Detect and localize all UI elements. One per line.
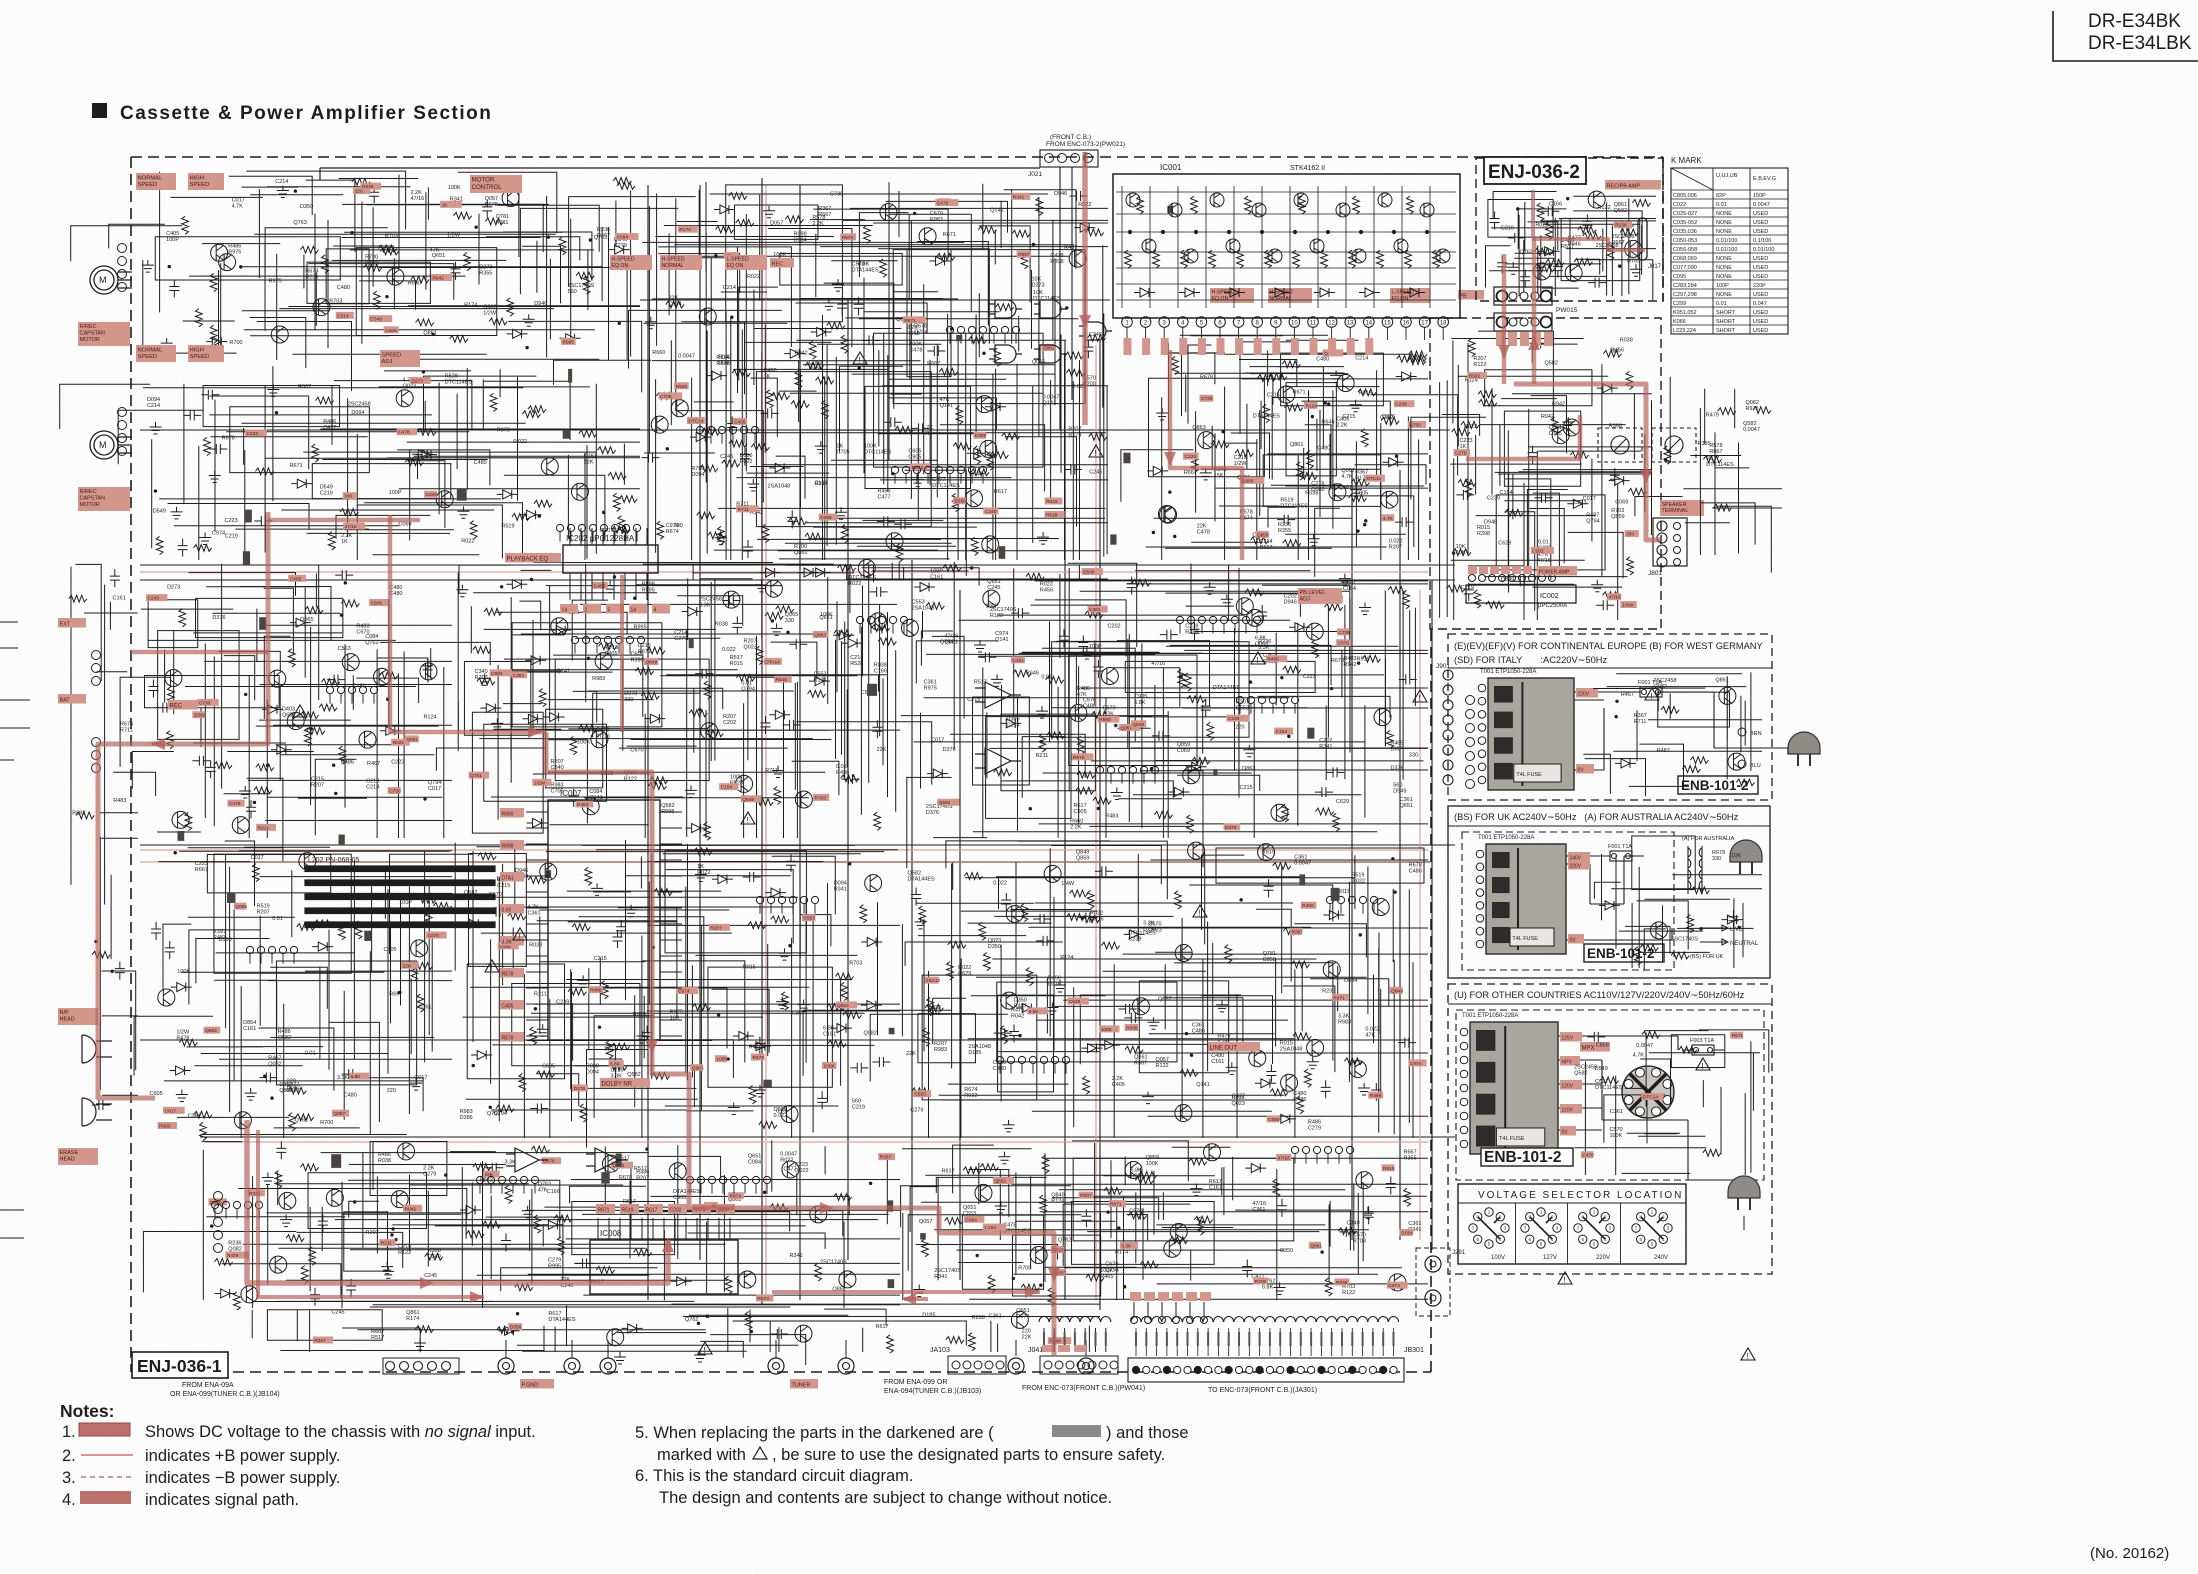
svg-text:IC001: IC001 [1160, 163, 1182, 172]
terminal at x846 [838, 1358, 854, 1374]
op-amp IC301b [975, 748, 1021, 774]
svg-text:D094: D094 [691, 472, 704, 478]
svg-text:C480: C480 [1317, 446, 1330, 452]
svg-text:R674: R674 [666, 529, 679, 535]
svg-text:C214: C214 [1355, 355, 1368, 361]
signal path pw015 down [1502, 254, 1507, 384]
IC002 muting block [1466, 585, 1576, 603]
svg-text:D350: D350 [954, 499, 966, 505]
svg-text:C480: C480 [1083, 704, 1096, 710]
svg-text:R578: R578 [502, 1035, 514, 1041]
svg-text:NORMAL: NORMAL [138, 347, 164, 353]
svg-text:C219: C219 [852, 1104, 865, 1110]
connector column x122 [118, 408, 127, 417]
svg-text:NONE: NONE [1716, 220, 1732, 226]
svg-text:NONE: NONE [1716, 256, 1732, 262]
svg-text:J801: J801 [1648, 570, 1662, 577]
svg-text:R015: R015 [633, 1012, 646, 1018]
svg-text:R341: R341 [834, 887, 847, 893]
IC001 pins 1-18 [1122, 317, 1133, 328]
svg-text:1K: 1K [763, 374, 770, 380]
svg-text:BAT: BAT [60, 697, 71, 703]
svg-text:C279: C279 [423, 1171, 436, 1177]
svg-text:R015: R015 [730, 661, 743, 667]
svg-text:C035-052: C035-052 [1673, 220, 1697, 226]
svg-text:3.3K: 3.3K [504, 1160, 516, 1166]
svg-text:Q859: Q859 [1076, 856, 1089, 862]
svg-text:100K: 100K [773, 252, 786, 258]
svg-text:, be sure to use the designate: , be sure to use the designated parts to… [772, 1446, 1165, 1464]
svg-text:R207: R207 [710, 925, 722, 931]
svg-text:R703: R703 [1627, 258, 1640, 264]
svg-text:100V: 100V [1491, 1255, 1505, 1261]
svg-text:R341: R341 [789, 1253, 802, 1259]
chip row R062 [1130, 1292, 1141, 1301]
connector pin row [326, 686, 333, 693]
svg-text:C478: C478 [398, 430, 410, 436]
svg-text:R022: R022 [393, 740, 405, 746]
dark component bodies [920, 1233, 926, 1239]
svg-text:C478: C478 [229, 801, 241, 807]
svg-text:220P: 220P [1753, 283, 1766, 289]
svg-text:R015: R015 [1383, 1166, 1395, 1172]
svg-text:C858: C858 [1596, 1043, 1609, 1049]
svg-text:Q863: Q863 [814, 632, 826, 638]
svg-text:2SC1740S: 2SC1740S [820, 1260, 847, 1266]
svg-text:R038: R038 [378, 1158, 391, 1164]
svg-text:DTC114ES: DTC114ES [1595, 1085, 1623, 1091]
svg-text:Q863: Q863 [1192, 425, 1205, 431]
svg-text:C077,090: C077,090 [1673, 265, 1697, 271]
svg-text:R674: R674 [1016, 1314, 1029, 1320]
svg-text:E,B,EV,G: E,B,EV,G [1753, 176, 1776, 182]
svg-text:C478: C478 [1197, 530, 1210, 536]
svg-text:150P: 150P [1753, 193, 1766, 199]
svg-text:330: 330 [344, 494, 352, 500]
svg-text:R983: R983 [934, 1047, 947, 1053]
svg-text:R975: R975 [924, 686, 937, 692]
svg-text:0.01: 0.01 [1716, 202, 1727, 208]
svg-text:CAPSTAN: CAPSTAN [80, 331, 106, 337]
svg-text:0.022: 0.022 [365, 260, 379, 266]
svg-text:0.01/100: 0.01/100 [1753, 247, 1774, 253]
svg-text:D273: D273 [1031, 283, 1044, 289]
svg-text:D350: D350 [988, 944, 1001, 950]
signal path bottom loop [247, 1120, 668, 1283]
wires and components (bottom band right) [901, 1141, 1428, 1300]
svg-text:1K: 1K [442, 202, 449, 208]
svg-text:3.3K: 3.3K [1121, 1243, 1132, 1249]
svg-text:R942: R942 [795, 351, 808, 357]
svg-text:C478: C478 [909, 348, 922, 354]
svg-text:0.022: 0.022 [722, 647, 736, 653]
svg-text:R898: R898 [1050, 259, 1063, 265]
svg-text:DTA144ES: DTA144ES [852, 267, 879, 273]
op-amp IC301a [975, 682, 1021, 708]
svg-text:(A) FOR AUSTRALIA: (A) FOR AUSTRALIA [1682, 836, 1735, 842]
svg-text:0.01: 0.01 [305, 1051, 316, 1057]
svg-text:R983: R983 [159, 1124, 171, 1130]
connector pin row [1096, 766, 1103, 773]
svg-text:R700: R700 [320, 1120, 333, 1126]
svg-text:R703: R703 [1353, 1239, 1366, 1245]
svg-text:R236: R236 [1322, 989, 1335, 995]
wires and components (panel 3 wiring detail) [1575, 1030, 1769, 1175]
svg-text:C905: C905 [1074, 809, 1087, 815]
svg-text:C219: C219 [1461, 585, 1474, 591]
svg-text:R479: R479 [176, 1036, 189, 1042]
model number corner mark [2053, 11, 2198, 61]
svg-text:R703: R703 [475, 675, 488, 681]
svg-text:Notes:: Notes: [60, 1401, 114, 1421]
wires and components (bottom logic band left) [143, 1140, 900, 1308]
svg-text:C154: C154 [984, 1225, 996, 1231]
ENJ-036-2 label [1484, 157, 1586, 184]
svg-text:USED: USED [1753, 292, 1768, 298]
svg-text:100P: 100P [389, 490, 402, 496]
svg-text:R519: R519 [1262, 849, 1275, 855]
signal path left input [131, 650, 268, 655]
svg-text:R674: R674 [730, 1194, 742, 1200]
svg-text:2SC2458: 2SC2458 [348, 402, 371, 408]
svg-text:IC007: IC007 [560, 789, 582, 798]
svg-text:R711: R711 [496, 220, 509, 226]
svg-text:12: 12 [1328, 321, 1335, 327]
svg-text:R042: R042 [1011, 1014, 1024, 1020]
svg-text:Q023: Q023 [743, 645, 756, 651]
svg-text:R671: R671 [1333, 995, 1345, 1001]
svg-text:DTA144ES: DTA144ES [908, 876, 935, 882]
connector pin row [1236, 696, 1243, 703]
svg-text:R456: R456 [1267, 657, 1279, 663]
svg-text:14: 14 [562, 607, 568, 613]
svg-text:R667: R667 [1018, 252, 1030, 258]
svg-text:C223: C223 [1185, 454, 1197, 460]
parts cluster (playback eq block) [456, 580, 896, 841]
svg-text:C215: C215 [497, 883, 510, 889]
svg-text:DTC114ES: DTC114ES [1280, 504, 1308, 510]
svg-text:0.022: 0.022 [993, 881, 1007, 887]
svg-text:R667: R667 [927, 361, 940, 367]
svg-text:2.2K: 2.2K [1336, 423, 1348, 429]
svg-text:IC008: IC008 [600, 1229, 622, 1238]
svg-text:R207: R207 [636, 1175, 649, 1181]
svg-text:R678: R678 [485, 202, 498, 208]
svg-text:R355: R355 [1697, 441, 1710, 447]
svg-text:R483: R483 [577, 802, 589, 808]
svg-text:Q762: Q762 [295, 1118, 308, 1124]
svg-text:R124: R124 [1060, 955, 1073, 961]
svg-text:11: 11 [1310, 321, 1317, 327]
signal path center snake [546, 732, 1054, 1356]
svg-text:C069: C069 [385, 328, 397, 334]
tape head 2 [82, 1098, 112, 1126]
svg-text:R341: R341 [1013, 194, 1025, 200]
svg-text:C215: C215 [1267, 392, 1280, 398]
svg-text:C361: C361 [989, 1314, 1002, 1320]
svg-text:LINE OUT: LINE OUT [1210, 1045, 1238, 1051]
svg-text:DTC11: DTC11 [1366, 476, 1381, 482]
chip PLAYBACK EQ [505, 553, 561, 563]
svg-text:C245: C245 [331, 1310, 344, 1316]
ground symbols row [414, 640, 1066, 1364]
IC002 pin chips [1468, 566, 1477, 574]
svg-text:R667: R667 [389, 991, 402, 997]
svg-text:R995: R995 [634, 624, 647, 630]
svg-text:0V: 0V [1562, 1129, 1569, 1135]
svg-text:C340: C340 [428, 1254, 441, 1260]
svg-text:R367: R367 [1292, 929, 1304, 935]
svg-text:BLU: BLU [1750, 763, 1761, 769]
svg-text:330: 330 [785, 618, 794, 624]
svg-text:R671: R671 [598, 1207, 610, 1213]
svg-text:C239: C239 [1395, 402, 1407, 408]
svg-text:R528: R528 [1046, 513, 1058, 519]
chip REC MUTE right [1605, 180, 1661, 190]
svg-text:C340: C340 [985, 509, 997, 515]
svg-text:R671: R671 [1732, 1033, 1744, 1039]
coil hump row [1131, 1317, 1399, 1323]
svg-text:R122: R122 [1473, 362, 1486, 368]
svg-text:47/16: 47/16 [1278, 1155, 1290, 1161]
svg-text:L-SPEED: L-SPEED [727, 257, 749, 263]
svg-text:CONTROL: CONTROL [472, 184, 503, 191]
svg-text:C705: C705 [1338, 630, 1350, 636]
svg-text:C166: C166 [547, 1189, 560, 1195]
svg-text:R042: R042 [1046, 499, 1058, 505]
parts cluster (ENJ-036-2 upper parts) [1488, 191, 1651, 288]
svg-text:MPX: MPX [1582, 1045, 1595, 1051]
dc jack J291 [1416, 1248, 1450, 1316]
svg-text:C974: C974 [1388, 1283, 1400, 1289]
svg-text:C219: C219 [225, 534, 238, 540]
ENJ-036-1 label [132, 1352, 228, 1378]
connector pin labels [1135, 1332, 1137, 1346]
svg-text:ADJ: ADJ [382, 359, 393, 365]
svg-text:6.8K: 6.8K [1262, 1284, 1274, 1290]
svg-text:2SA10: 2SA10 [926, 978, 941, 984]
svg-text:0.0047: 0.0047 [1636, 1043, 1653, 1049]
svg-text:C017: C017 [428, 786, 441, 792]
connector pin row [686, 1176, 693, 1183]
svg-text:R660: R660 [652, 350, 665, 356]
svg-text:15K: 15K [1214, 473, 1224, 479]
svg-text:C480: C480 [344, 1093, 357, 1099]
svg-text:USED: USED [1753, 328, 1768, 334]
svg-text:C245: C245 [424, 1273, 437, 1279]
svg-text:Q582: Q582 [939, 800, 951, 806]
connector J901 column [1443, 670, 1453, 680]
svg-text:R646: R646 [775, 677, 787, 683]
svg-text:T4L FUSE: T4L FUSE [1512, 936, 1538, 942]
svg-text:D376: D376 [1391, 766, 1404, 772]
svg-text:L223,224: L223,224 [1673, 328, 1696, 334]
svg-text:R703: R703 [849, 961, 862, 967]
svg-text:R341: R341 [934, 1274, 947, 1280]
transformer T001 (panel 2) [1476, 835, 1566, 954]
svg-text:C480: C480 [474, 460, 487, 466]
svg-text:R678: R678 [1200, 374, 1213, 380]
svg-text:R465: R465 [1100, 1274, 1113, 1280]
connector column x218 [214, 1192, 223, 1201]
svg-text:C219: C219 [320, 491, 333, 497]
svg-text:R456: R456 [1302, 903, 1314, 909]
ENJ-036-2 dashed box lower [1430, 318, 1661, 629]
svg-text:R975: R975 [269, 279, 282, 285]
svg-text:C245: C245 [927, 1011, 940, 1017]
svg-text:Q057: Q057 [333, 1111, 345, 1117]
svg-text:C161: C161 [113, 596, 126, 602]
svg-text:R038: R038 [1126, 1025, 1138, 1031]
svg-text:NONE: NONE [1716, 229, 1732, 235]
svg-text:R483: R483 [113, 798, 126, 804]
connector J041 [1040, 1356, 1118, 1374]
svg-text:F003 T1A: F003 T1A [1690, 1038, 1714, 1044]
svg-text:D549: D549 [718, 360, 731, 366]
svg-text:F001 T1A: F001 T1A [1608, 844, 1632, 850]
svg-text:Q849: Q849 [1391, 988, 1403, 994]
svg-text:125V: 125V [1562, 1035, 1574, 1041]
svg-text:Q057: Q057 [1120, 725, 1132, 731]
svg-text:C405: C405 [604, 651, 617, 657]
svg-text:R467: R467 [1621, 692, 1634, 698]
svg-text:PW015: PW015 [1556, 307, 1578, 314]
svg-text:USED: USED [1753, 319, 1768, 325]
trimmer RV602 [1652, 428, 1696, 462]
svg-text:100K: 100K [577, 739, 590, 745]
svg-text:R667: R667 [1134, 1060, 1147, 1066]
svg-text:C361: C361 [188, 1113, 201, 1119]
svg-text:T4L FUSE: T4L FUSE [1499, 1136, 1525, 1142]
svg-text:Q861: Q861 [794, 550, 807, 556]
svg-text:C245: C245 [1089, 332, 1102, 338]
chip NORMAL SPEED [136, 173, 176, 190]
svg-text:C239: C239 [1228, 716, 1240, 722]
svg-text:C214: C214 [275, 179, 288, 185]
svg-text:R995: R995 [562, 339, 574, 345]
svg-text:D376: D376 [926, 810, 939, 816]
svg-text:47/16: 47/16 [410, 196, 424, 202]
svg-text:DTA144ES: DTA144ES [1213, 685, 1240, 691]
svg-text:R122: R122 [1598, 205, 1611, 211]
svg-text:R519: R519 [501, 524, 514, 530]
svg-text:NORMAL: NORMAL [662, 263, 684, 269]
svg-text:C299: C299 [1673, 301, 1686, 307]
svg-text:0.022: 0.022 [513, 439, 527, 445]
svg-text:Q781: Q781 [470, 773, 482, 779]
svg-text:C974: C974 [1410, 1061, 1422, 1067]
svg-text:Q762: Q762 [1058, 1237, 1071, 1243]
panel 2 plug [1730, 840, 1762, 874]
svg-text:ENA-094(TUNER C.B.)(JB103): ENA-094(TUNER C.B.)(JB103) [884, 1388, 981, 1395]
connector pin row [996, 1056, 1003, 1063]
page title square bullet [92, 103, 107, 118]
svg-text:R367: R367 [880, 1155, 892, 1161]
svg-text:R211: R211 [534, 991, 547, 997]
svg-text:C361: C361 [513, 673, 525, 679]
left edge stubs [0, 622, 30, 1238]
main schematic dashed border [131, 157, 1663, 1372]
svg-text:R671: R671 [289, 463, 302, 469]
svg-text:R207: R207 [311, 783, 324, 789]
svg-text:100K: 100K [716, 1057, 728, 1063]
svg-text:R678: R678 [619, 1175, 632, 1181]
svg-text:C245: C245 [720, 454, 733, 460]
svg-text:10: 10 [1291, 321, 1298, 327]
tape head 1 [82, 1035, 112, 1063]
svg-text:330: 330 [1712, 856, 1721, 862]
svg-text:Q794: Q794 [741, 687, 754, 693]
svg-text:(BS) FOR UK AC240V∼50Hz (A): (BS) FOR UK AC240V∼50Hz (A) FOR AUSTRALI… [1454, 812, 1739, 822]
svg-text:µPC2500A: µPC2500A [1538, 603, 1567, 609]
svg-text:indicates signal path.: indicates signal path. [145, 1491, 299, 1509]
wires and components (mid-left record block) [120, 564, 490, 862]
panel 2 inner dashed box [1462, 832, 1674, 970]
svg-text:R456: R456 [1040, 587, 1053, 593]
svg-text:47/16: 47/16 [1090, 917, 1104, 923]
svg-text:C214: C214 [723, 285, 736, 291]
svg-text:3.3K: 3.3K [502, 939, 513, 945]
parts cluster (top-center logic block) [642, 185, 1107, 562]
svg-text:ADJ: ADJ [1300, 597, 1311, 603]
svg-text:R660: R660 [1099, 717, 1111, 723]
svg-text:D185: D185 [922, 1313, 935, 1319]
svg-text:0.0047: 0.0047 [678, 354, 695, 360]
svg-text:K066: K066 [1673, 319, 1686, 325]
svg-text:C570: C570 [428, 933, 440, 939]
svg-text:0.01/100: 0.01/100 [1716, 238, 1737, 244]
svg-text:T001 ETP1050-228A: T001 ETP1050-228A [1480, 669, 1536, 675]
svg-text:L202 PN-068-05: L202 PN-068-05 [308, 857, 359, 864]
chip DOLBY NR [600, 1078, 650, 1088]
svg-text:C154: C154 [1500, 490, 1513, 496]
svg-text:R671: R671 [943, 232, 956, 238]
svg-text:C605: C605 [371, 600, 383, 606]
svg-text:110V: 110V [1562, 1107, 1574, 1113]
svg-text:R124: R124 [423, 715, 436, 721]
parts cluster (panel 1 wiring detail) [1615, 687, 1755, 785]
svg-text:R667: R667 [1259, 545, 1272, 551]
svg-text:R671: R671 [1292, 389, 1305, 395]
chip PB LEVEL ADJ [1298, 588, 1342, 604]
svg-text:C084: C084 [820, 515, 832, 521]
svg-text:C161: C161 [243, 1026, 256, 1032]
bottom chips [520, 1379, 554, 1389]
svg-text:T4L FUSE: T4L FUSE [1516, 772, 1542, 778]
svg-text:REC: REC [772, 261, 784, 267]
svg-text:R236: R236 [1615, 223, 1627, 229]
svg-text:(BS) FOR UK: (BS) FOR UK [1690, 954, 1724, 960]
svg-text:1/4W: 1/4W [1061, 881, 1075, 887]
svg-text:C361: C361 [1089, 607, 1101, 613]
svg-text:C056-058: C056-058 [1673, 247, 1697, 253]
svg-text:C480: C480 [1192, 1028, 1205, 1034]
terminal at x1086 [1078, 1358, 1094, 1374]
svg-text:R042: R042 [432, 276, 444, 282]
svg-text:R467: R467 [367, 761, 380, 767]
svg-text:R038: R038 [1336, 1280, 1348, 1286]
svg-text:C478: C478 [1582, 1153, 1594, 1159]
svg-text:C166: C166 [1549, 201, 1562, 207]
connector PW015 row 2 [1494, 313, 1552, 331]
svg-text:3.3K: 3.3K [790, 1011, 802, 1017]
svg-text:MOTOR: MOTOR [80, 337, 100, 343]
wires and components (speaker terminal area) [1635, 377, 1782, 573]
svg-text:C202: C202 [723, 720, 736, 726]
svg-text:6.8K: 6.8K [1134, 700, 1146, 706]
power panel 2 frame [1448, 806, 1770, 978]
svg-text:R174: R174 [406, 1316, 419, 1322]
